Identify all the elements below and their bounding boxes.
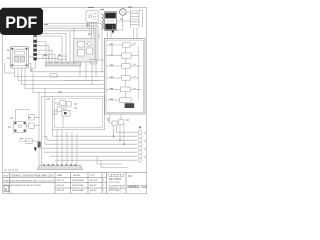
svg-text:VALUE: VALUE — [73, 174, 81, 177]
wire branch to RB1 — [73, 28, 75, 62]
wire bus net V3 — [22, 73, 105, 85]
output connector J3 pins — [117, 126, 143, 163]
svg-text:QTY: QTY — [90, 175, 95, 177]
wire J1 pin1 to primary — [37, 28, 95, 38]
output bus wires — [41, 130, 136, 168]
wire J1 pin4 — [37, 36, 62, 62]
wire bus net V5 — [33, 73, 104, 93]
diode D3 row 4 — [106, 68, 139, 80]
PDF badge — [0, 8, 43, 35]
wire feedback branch — [63, 80, 99, 82]
svg-text:NO.: NO. — [128, 175, 133, 178]
svg-text:PART: PART — [57, 174, 63, 177]
wire bus net V4 — [25, 73, 104, 89]
wire ground link — [5, 72, 15, 74]
svg-text:SW/100VAC: SW/100VAC — [72, 189, 85, 192]
svg-text:ACCORDING VDE 0805 / IEC 950 K: ACCORDING VDE 0805 / IEC 950 KHZ — [11, 184, 42, 187]
diode D5 on bus — [90, 60, 97, 65]
filter cluster below rectifier box — [109, 114, 111, 118]
junction marks on output bus — [114, 135, 125, 145]
transformer T1 primary winding — [102, 14, 104, 29]
svg-text:A/6.3P: A/6.3P — [90, 184, 97, 187]
wire J1 pin7 — [37, 50, 52, 62]
wire coil return — [98, 33, 100, 39]
junction node A — [89, 33, 91, 35]
logo cell — [109, 174, 126, 192]
wire J1 pin9 — [37, 59, 58, 62]
page border — [2, 8, 146, 194]
snubber module shaded box — [74, 39, 96, 85]
control section box — [53, 96, 105, 129]
wire ground stub — [4, 63, 6, 73]
auxiliary box above output connector — [106, 114, 124, 144]
tiny note text above title block — [5, 169, 19, 171]
connector J2 top right pin rows — [131, 10, 143, 39]
wire module to connector — [29, 57, 105, 72]
PWM controller cluster — [54, 101, 71, 128]
heatsink bar — [43, 56, 81, 66]
svg-text:SPS-03: SPS-03 — [57, 190, 65, 192]
wire J1 pin8 — [37, 54, 55, 62]
svg-text:TITLE: TITLE — [3, 175, 9, 177]
svg-text:B: B — [5, 188, 7, 192]
wire bus net V2 — [18, 73, 104, 81]
svg-text:SCHEMATIC, SWITCHING POWER SUP: SCHEMATIC, SWITCHING POWER SUPPLY 110W — [11, 174, 54, 177]
diode D2 row 3 — [106, 58, 139, 68]
svg-text:OVER THIS DRAWING AREA - WELT: OVER THIS DRAWING AREA - WELT TO 1.5mA (… — [11, 179, 54, 182]
svg-text:S28930E10 - FLJC: S28930E10 - FLJC — [127, 184, 147, 189]
wire J1 pin3 — [37, 33, 66, 62]
inductor L1 row 6 — [106, 92, 134, 108]
transformer T1 core block — [104, 12, 130, 39]
capacitor C10 row 2 — [106, 47, 139, 58]
wire J1 pin2 to primary — [37, 31, 92, 39]
title block top line — [2, 172, 146, 174]
wire right-side return bus — [139, 45, 142, 100]
svg-text:APPROVALS: APPROVALS — [109, 189, 122, 192]
parts table grid — [55, 173, 126, 194]
wire bus net V1 — [15, 73, 105, 77]
title block texts — [3, 174, 54, 192]
wire AC line L to bus — [44, 24, 103, 72]
wire branch 2 to RB1 — [69, 31, 71, 62]
circuit breaker CB1 circle — [104, 9, 131, 30]
svg-text:A/3.15P: A/3.15P — [90, 179, 98, 182]
revision box B — [4, 186, 9, 192]
svg-text:SW/115VAC: SW/115VAC — [72, 184, 84, 187]
resistor R12 on bus — [50, 74, 57, 77]
wire snubber to bus — [95, 39, 97, 77]
capacitor C11 row 5 — [106, 80, 139, 92]
optocoupler U2 — [14, 110, 39, 133]
AC input module X1 — [10, 47, 28, 73]
wire J1 pin5 — [37, 42, 46, 63]
title block bottom area lines left — [2, 173, 106, 194]
diode D1 output rectifier row 1 — [106, 43, 135, 56]
wire AC line N to rectifier box — [44, 26, 105, 60]
connector J1 — [33, 27, 36, 60]
svg-text:SW/230VAC: SW/230VAC — [72, 179, 85, 182]
svg-text:PDF: PDF — [5, 14, 37, 32]
drawing number — [127, 175, 147, 189]
relay K1 top center box — [86, 7, 98, 38]
component reference labels (tiny marks) — [7, 7, 146, 157]
svg-text:A/6.3P: A/6.3P — [90, 189, 97, 192]
polarity arrow — [112, 31, 115, 34]
rectifier bank box — [104, 39, 145, 115]
svg-text:SPS-02: SPS-02 — [57, 185, 65, 187]
output terminal strip — [38, 164, 83, 170]
svg-text:SPS-01: SPS-01 — [57, 180, 65, 182]
shunt regulator cluster — [18, 89, 53, 166]
svg-text:TECTROL: TECTROL — [109, 178, 122, 181]
wire J1 pin6 — [37, 46, 49, 62]
